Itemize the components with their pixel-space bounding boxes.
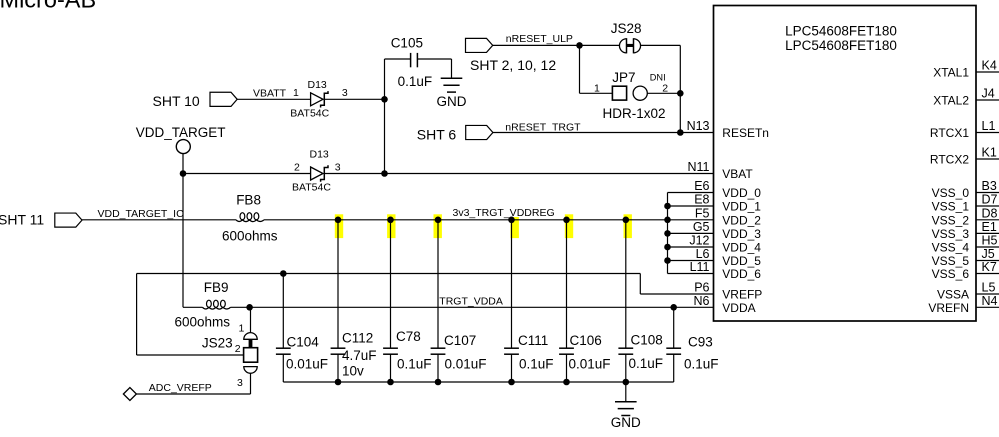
svg-text:N13: N13 (687, 119, 710, 133)
svg-text:0.01uF: 0.01uF (286, 356, 328, 371)
U1 right pin wire B3 (VSS_0) (976, 192, 999, 194)
U1 left pin name VREFP (722, 288, 762, 302)
svg-text:1: 1 (594, 83, 600, 95)
svg-text:nRESET_ULP: nRESET_ULP (506, 33, 573, 45)
svg-text:L11: L11 (690, 260, 710, 274)
capacitor C107 bottom stub wire (437, 354, 439, 382)
off-page connector VDD_TARGET_IC (55, 213, 82, 227)
svg-text:JS28: JS28 (611, 21, 642, 36)
capacitor C105 symbol (411, 53, 418, 67)
junction ground rail at x=511.5 (508, 379, 515, 386)
diode D13a pin 3 label (342, 87, 348, 99)
svg-text:3: 3 (342, 87, 348, 99)
junction on VDD bus at y=233.4 (664, 230, 671, 237)
capacitor C107 symbol (431, 348, 446, 354)
svg-text:C106: C106 (570, 333, 602, 348)
U1 left pin name VDD_1 (722, 200, 761, 214)
capacitor C104 bottom stub wire (282, 354, 284, 382)
U1 right pin number J5 (982, 247, 995, 261)
highlight mark 5 on net 3v3_TRGT_VDDREG (565, 214, 573, 238)
junction 3v3 rail at x=511.5 (508, 217, 515, 224)
U1 right pin number N4 (982, 294, 998, 308)
capacitor C108 label (631, 333, 663, 348)
U1 right pin number L5 (982, 281, 996, 295)
svg-text:D13: D13 (310, 148, 329, 160)
junction VREFP wire at C104 (280, 270, 287, 277)
capacitor C93 label (688, 334, 713, 349)
U1 left pin name VDD_5 (722, 254, 761, 268)
svg-text:SHT 2, 10, 12: SHT 2, 10, 12 (470, 57, 556, 73)
svg-text:N11: N11 (687, 160, 709, 174)
svg-text:C108: C108 (631, 333, 663, 348)
U1 right pin number E1 (982, 220, 997, 234)
capacitor C104 top stub wire (282, 274, 284, 349)
svg-text:VDD_TARGET: VDD_TARGET (136, 125, 226, 140)
wire VREFP left vertical (136, 274, 138, 356)
capacitor C104 symbol (276, 348, 291, 354)
capacitor C106 bottom stub wire (566, 354, 568, 382)
svg-text:RTCX2: RTCX2 (930, 153, 969, 167)
capacitor C78 label (396, 329, 421, 344)
svg-text:LPC54608FET180: LPC54608FET180 (785, 24, 897, 39)
U1 left pin number N6 (694, 294, 710, 308)
wire VDD_TARGET to FB9 (183, 306, 203, 308)
junction ground rail at x=625.8 (623, 379, 630, 386)
U1 left pin number P6 (694, 281, 709, 295)
solder jumper JS28 label (611, 21, 642, 36)
solder jumper JS23 pin 3 pad (244, 367, 257, 374)
U1 left pin name VDD_6 (722, 267, 761, 281)
capacitor C108 symbol (618, 348, 633, 354)
U1 left pin name VBAT (722, 167, 753, 181)
capacitor C111 value 0.1uF (519, 357, 554, 372)
U1 left pin number E8 (694, 193, 709, 207)
svg-text:L5: L5 (982, 281, 996, 295)
capacitor C107 top stub wire (437, 220, 439, 348)
U1 left pin number L6 (696, 247, 710, 261)
svg-text:Micro-AB: Micro-AB (0, 0, 96, 13)
svg-text:ADC_VREFP: ADC_VREFP (149, 382, 212, 394)
svg-text:DNI: DNI (650, 72, 666, 82)
wire ground rail stem to GND (625, 382, 627, 401)
ferrite bead FB8 label (236, 192, 261, 207)
power symbol VDD_TARGET label (136, 125, 226, 140)
diode D13b (BAT54C) symbol (311, 165, 328, 181)
off-page connector ADC_VREFP (diamond) (123, 388, 136, 401)
U1 right pin number K4 (982, 59, 997, 73)
svg-text:BAT54C: BAT54C (292, 182, 331, 194)
wire VREFP to pin P6 (640, 293, 713, 295)
ferrite bead FB8 value 600ohms (222, 229, 278, 244)
JS23 pin 2 label (235, 343, 241, 355)
svg-text:0.1uF: 0.1uF (397, 356, 432, 371)
svg-text:C104: C104 (287, 334, 320, 349)
wire VREFP corner down (639, 274, 641, 295)
U1 right pin number K7 (982, 260, 997, 274)
text SHT 11 (0, 212, 44, 228)
U1 left pin name VDD_4 (722, 241, 761, 255)
header JP7 value HDR-1x02 (603, 106, 666, 121)
wire net 3v3_TRGT_VDDREG rail (264, 219, 714, 221)
solder jumper JS23 pin 2 pad (244, 348, 258, 363)
svg-text:SHT 6: SHT 6 (417, 126, 457, 142)
diode D13a value BAT54C (290, 108, 329, 120)
JP7 DNI label (650, 72, 666, 82)
junction VDD_TARGET / VBAT row (180, 170, 187, 177)
highlight mark 2 on net 3v3_TRGT_VDDREG (387, 214, 395, 238)
U1 right pin name VSS_4 (932, 241, 970, 255)
svg-text:3v3_TRGT_VDDREG: 3v3_TRGT_VDDREG (453, 207, 555, 219)
ground symbol GND (bottom) (611, 402, 641, 430)
junction ground rail at x=438 (435, 379, 442, 386)
junction node VBATT/cathode (381, 96, 388, 103)
svg-text:D8: D8 (982, 206, 998, 220)
header JP7 pin 2 pad (circle) (633, 86, 647, 100)
svg-text:K1: K1 (982, 146, 997, 160)
junction 3v3 rail at VDD bus (664, 217, 671, 224)
svg-text:VDD_TARGET_IC: VDD_TARGET_IC (98, 208, 185, 220)
svg-text:H5: H5 (982, 234, 998, 248)
svg-text:D7: D7 (982, 193, 998, 207)
junction on VDD bus at y=260.5 (664, 257, 671, 264)
U1 right pin number J4 (982, 87, 995, 101)
solder jumper JS23 pin 1 pad (244, 333, 257, 340)
capacitor C111 label (518, 333, 548, 348)
U1 right pin number D8 (982, 206, 998, 220)
svg-text:VBATT: VBATT (253, 87, 287, 99)
capacitor C112 symbol (331, 348, 346, 354)
capacitor C93 symbol (666, 348, 681, 354)
ferrite bead FB9 value 600ohms (175, 315, 231, 330)
diode D13a (BAT54C) symbol (311, 91, 328, 107)
capacitor C93 top stub wire (673, 307, 675, 348)
wire VDD pin stub E6 (668, 192, 714, 194)
wire to JS23 pin 2 (137, 354, 244, 356)
capacitor C78 bottom stub wire (390, 354, 392, 382)
capacitor C78 symbol (383, 348, 398, 354)
diode D13b label (310, 148, 329, 160)
junction RESETn node (677, 129, 684, 136)
wire JS28 to right corner (641, 44, 681, 46)
svg-text:JS23: JS23 (202, 336, 233, 351)
wire VDD_TARGET to D13b anode (183, 173, 311, 175)
diode D13b value BAT54C (292, 182, 331, 194)
svg-text:VDD_2: VDD_2 (722, 213, 761, 227)
U1 left pin number E6 (694, 179, 709, 193)
net label VBATT (253, 87, 287, 99)
text SHT 10 (153, 93, 200, 109)
header JP7 label (612, 70, 635, 85)
capacitor C106 top stub wire (566, 220, 568, 348)
capacitor C106 label (570, 333, 602, 348)
capacitor C106 value 0.01uF (569, 357, 611, 372)
svg-text:10v: 10v (342, 364, 364, 379)
U1 right pin wire H5 (VSS_4) (976, 246, 999, 248)
junction nRESET_ULP / JP7 branch (576, 42, 583, 49)
U1 left pin number F5 (695, 206, 710, 220)
solder jumper JS28 symbol (619, 38, 640, 53)
capacitor C111 top stub wire (511, 220, 513, 348)
vertical bus for VDD pins (667, 193, 669, 274)
svg-text:XTAL2: XTAL2 (933, 94, 969, 108)
capacitor C105 label (391, 35, 423, 50)
svg-text:RESETn: RESETn (722, 126, 769, 140)
net label TRGT_VDDA (439, 295, 503, 307)
wire D13b cathode to VBAT pin N11 (324, 173, 713, 175)
wire net TRGT_VDDA to VDDA pin N6 (231, 306, 714, 308)
junction 3v3 rail at x=390.5 (387, 217, 394, 224)
capacitor C107 label (444, 333, 476, 348)
U1 right pin wire J5 (VSS_5) (976, 260, 999, 262)
wire VDD pin stub L6 (668, 260, 714, 262)
U1 left pin number N13 (687, 119, 710, 133)
U1 left pin name RESETn (722, 126, 769, 140)
highlight mark 6 on net 3v3_TRGT_VDDREG (624, 214, 632, 238)
svg-text:XTAL1: XTAL1 (933, 66, 969, 80)
U1 right pin wire L1 (RTCX1) (976, 132, 999, 134)
junction 3v3 rail at x=338 (335, 217, 342, 224)
junction TRGT_VDDA at JS23 (246, 304, 253, 311)
svg-text:1: 1 (293, 87, 299, 99)
capacitor C93 bottom stub wire (673, 354, 675, 382)
capacitor C108 bottom stub wire (625, 354, 627, 382)
svg-text:SHT 10: SHT 10 (153, 93, 200, 109)
wire right vertical to RESETn node (679, 45, 681, 132)
svg-text:VDD_3: VDD_3 (722, 227, 761, 241)
IC U1 part name (785, 24, 897, 53)
wire VDD pin stub J12 (668, 246, 714, 248)
wire ADC_VREFP (136, 393, 250, 395)
svg-text:VDDA: VDDA (722, 301, 755, 315)
junction 3v3 rail at x=438 (435, 217, 442, 224)
U1 left pin name VDD_2 (722, 213, 761, 227)
capacitor C108 value 0.1uF (629, 356, 664, 371)
U1 right pin number K1 (982, 146, 997, 160)
svg-text:3: 3 (237, 377, 243, 389)
svg-text:VREFN: VREFN (928, 301, 969, 315)
capacitor C112 bottom stub wire (337, 354, 339, 382)
svg-text:VSSA: VSSA (937, 288, 969, 302)
svg-text:K7: K7 (982, 260, 997, 274)
solder jumper JS23 stem from TRGT_VDDA (250, 307, 252, 332)
JS23 pin 1 label (239, 322, 245, 334)
net label nRESET_ULP (506, 33, 573, 45)
capacitor C78 top stub wire (390, 220, 392, 348)
svg-text:N4: N4 (982, 294, 998, 308)
U1 right pin wire K4 (XTAL1) (976, 71, 999, 73)
wire VBATT from connector to D13 anode (237, 98, 311, 100)
svg-text:LPC54608FET180: LPC54608FET180 (785, 38, 897, 53)
U1 right pin wire D7 (VSS_1) (976, 205, 999, 207)
capacitor C112 label (342, 331, 373, 346)
svg-text:VDD_1: VDD_1 (722, 200, 761, 214)
JS23 pin 3 label (237, 377, 243, 389)
svg-text:VSS_6: VSS_6 (932, 267, 970, 281)
diode D13b pin 2 label (294, 161, 300, 173)
diode D13 pin 1 label (293, 87, 299, 99)
svg-text:JP7: JP7 (612, 70, 635, 85)
svg-text:0.01uF: 0.01uF (445, 357, 487, 372)
junction VBAT row at vertical node (381, 170, 388, 177)
ground symbol GND (C105) (437, 78, 467, 109)
svg-text:2: 2 (294, 161, 300, 173)
svg-text:J4: J4 (982, 87, 995, 101)
svg-text:C112: C112 (342, 331, 373, 346)
junction TRGT_VDDA at C93 (670, 304, 677, 311)
wire nRESET_ULP to JS28 (492, 44, 619, 46)
svg-text:VDD_6: VDD_6 (722, 267, 761, 281)
JS23 solder bridge 1-2 (249, 339, 253, 347)
power symbol VDD_TARGET circle (176, 140, 190, 154)
junction ground rail at x=566.5 (563, 379, 570, 386)
svg-text:1: 1 (239, 322, 245, 334)
svg-text:TRGT_VDDA: TRGT_VDDA (439, 295, 503, 307)
text SHT 6 (417, 126, 457, 142)
U1 right pin number D7 (982, 193, 998, 207)
svg-text:0.01uF: 0.01uF (569, 357, 611, 372)
svg-text:C78: C78 (396, 329, 421, 344)
off-page connector nRESET_TRGT (466, 125, 493, 139)
U1 left pin number N11 (687, 160, 709, 174)
capacitor C111 symbol (504, 348, 519, 354)
svg-text:FB8: FB8 (236, 192, 261, 207)
svg-text:600ohms: 600ohms (175, 315, 231, 330)
net label nRESET_TRGT (505, 122, 581, 134)
svg-text:GND: GND (437, 94, 467, 109)
svg-text:0.1uF: 0.1uF (684, 357, 719, 372)
ferrite bead FB8 symbol (236, 213, 264, 222)
U1 right pin wire K7 (VSS_6) (976, 273, 999, 275)
U1 right pin number H5 (982, 234, 998, 248)
capacitor C107 value 0.01uF (445, 357, 487, 372)
wire C105 to GND (417, 59, 451, 78)
svg-text:GND: GND (611, 415, 641, 430)
svg-text:C111: C111 (518, 333, 548, 348)
ferrite bead FB9 symbol (203, 300, 231, 309)
svg-text:E6: E6 (694, 179, 709, 193)
U1 right pin number L1 (982, 119, 996, 133)
svg-text:4.7uF: 4.7uF (342, 348, 377, 363)
svg-text:VDD_0: VDD_0 (722, 186, 761, 200)
capacitor C105 value 0.1uF (398, 74, 433, 89)
junction on VDD bus at y=247 (664, 244, 671, 251)
junction 3v3 rail at x=566.5 (563, 217, 570, 224)
wire JP7 pin 2 to vertical (647, 92, 680, 94)
svg-text:VSS_0: VSS_0 (932, 186, 970, 200)
capacitor C104 value 0.01uF (286, 356, 328, 371)
capacitor C106 symbol (559, 348, 574, 354)
svg-text:HDR-1x02: HDR-1x02 (603, 106, 666, 121)
U1 right pin name RTCX1 (930, 126, 969, 140)
svg-text:F5: F5 (695, 206, 710, 220)
wire VDD pin stub L11 (668, 273, 714, 275)
capacitor C112 top stub wire (337, 220, 339, 348)
svg-text:SHT 11: SHT 11 (0, 212, 44, 228)
wire node up to C105 (385, 58, 411, 60)
svg-text:0.1uF: 0.1uF (398, 74, 433, 89)
JP7 pin 1 label (594, 83, 600, 95)
svg-text:RTCX1: RTCX1 (930, 126, 969, 140)
highlight mark 1 on net 3v3_TRGT_VDDREG (335, 214, 343, 238)
wire left vertical to JP7 (579, 45, 581, 93)
diode D13b pin 3 label (335, 161, 341, 173)
U1 left pin name VDD_0 (722, 186, 761, 200)
wire D13a cathode to node (324, 98, 384, 100)
U1 right pin wire K1 (RTCX2) (976, 158, 999, 160)
svg-text:VSS_5: VSS_5 (932, 254, 970, 268)
svg-text:nRESET_TRGT: nRESET_TRGT (505, 122, 581, 134)
capacitor C93 value 0.1uF (684, 357, 719, 372)
junction ground rail at x=338 (335, 379, 342, 386)
ferrite bead FB9 label (204, 280, 229, 295)
wire VDD_TARGET vertical (182, 154, 184, 308)
svg-text:B3: B3 (982, 179, 997, 193)
text SHT 2, 10, 12 (470, 57, 556, 73)
svg-text:0.1uF: 0.1uF (629, 356, 664, 371)
capacitor C108 top stub wire (625, 220, 627, 348)
U1 right pin wire L5 (VSSA) (976, 293, 999, 295)
svg-text:2: 2 (235, 343, 241, 355)
junction 3v3 rail at x=625.8 (623, 217, 630, 224)
wire VREFP horizontal (row 273.5) (137, 273, 641, 275)
junction ground rail at x=390.5 (387, 379, 394, 386)
off-page connector nRESET_ULP (466, 38, 493, 52)
title Micro-AB (0, 0, 96, 13)
U1 right pin wire N4 (VREFN) (976, 306, 999, 308)
junction on VDD bus at y=206 (664, 203, 671, 210)
U1 left pin number G5 (693, 220, 710, 234)
svg-text:2: 2 (662, 82, 668, 94)
svg-text:E1: E1 (982, 220, 997, 234)
U1 left pin number J12 (689, 234, 709, 248)
capacitor C112 value 4.7uF (342, 348, 377, 379)
svg-text:C105: C105 (391, 35, 423, 50)
header JP7 pin 1 pad (square) (612, 86, 626, 100)
svg-text:E8: E8 (694, 193, 709, 207)
junction JP7 branch / right vertical (677, 90, 684, 97)
U1 right pin name VSSA (937, 288, 969, 302)
net label VDD_TARGET_IC (98, 208, 185, 220)
svg-text:VDD_5: VDD_5 (722, 254, 761, 268)
svg-text:L1: L1 (982, 119, 996, 133)
svg-text:VSS_1: VSS_1 (932, 200, 970, 214)
U1 right pin wire D8 (VSS_2) (976, 219, 999, 221)
wire connector to FB8 (82, 219, 236, 221)
off-page connector SHT10 (210, 92, 237, 106)
U1 right pin name VSS_6 (932, 267, 970, 281)
U1 right pin name VSS_2 (932, 213, 970, 227)
svg-text:600ohms: 600ohms (222, 229, 278, 244)
capacitor C111 bottom stub wire (511, 354, 513, 382)
IC U1 LPC54608FET180 box (714, 6, 977, 322)
U1 left pin name VDDA (722, 301, 755, 315)
wire ground rail (caps bottom) (283, 381, 673, 383)
diode D13a label (308, 79, 327, 91)
svg-text:L6: L6 (696, 247, 710, 261)
U1 left pin number L11 (690, 260, 710, 274)
U1 right pin name VSS_1 (932, 200, 970, 214)
net label 3v3_TRGT_VDDREG (453, 207, 555, 219)
wire JS23 pin 3 down (250, 373, 252, 394)
U1 right pin name XTAL1 (933, 66, 969, 80)
net label ADC_VREFP (149, 382, 212, 394)
capacitor C78 value 0.1uF (397, 356, 432, 371)
svg-text:VREFP: VREFP (722, 288, 762, 302)
svg-text:N6: N6 (694, 294, 710, 308)
svg-text:BAT54C: BAT54C (290, 108, 329, 120)
JP7 pin 2 label (662, 82, 668, 94)
highlight mark 4 on net 3v3_TRGT_VDDREG (511, 217, 519, 238)
